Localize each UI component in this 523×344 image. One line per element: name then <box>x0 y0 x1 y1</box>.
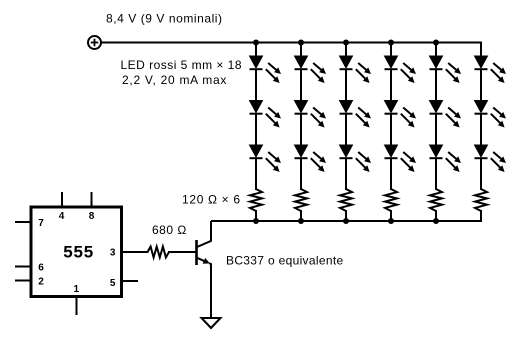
wire column 5 top segment <box>435 43 437 58</box>
node bottom rail junction column 2 <box>298 218 304 224</box>
svg-text:555: 555 <box>63 242 94 261</box>
LED D12 (column 4 row 3) <box>385 145 417 172</box>
wire column 1 LED3 to resistor <box>255 158 257 190</box>
wire column 4 resistor to bottom rail <box>390 210 392 221</box>
transistor Q1 collector diagonal <box>197 241 212 247</box>
svg-text:8: 8 <box>89 211 95 222</box>
LED D15 (column 5 row 3) <box>430 145 462 172</box>
wire column 3 LED3 to resistor <box>345 158 347 190</box>
LED D7 (column 3 row 1) <box>340 56 372 83</box>
node bottom rail junction column 3 <box>343 218 349 224</box>
node top rail junction column 2 <box>298 40 304 46</box>
wire column 1 between LED row 1 and row 2 <box>255 69 257 101</box>
transistor Q1 BC337 base bar <box>195 240 198 265</box>
svg-text:2: 2 <box>38 276 44 287</box>
svg-text:7: 7 <box>38 218 44 229</box>
svg-text:2,2 V, 20 mA max: 2,2 V, 20 mA max <box>122 73 227 87</box>
wire column 3 resistor to bottom rail <box>345 210 347 221</box>
svg-text:4: 4 <box>59 211 65 222</box>
wire top rail from supply to column 6 <box>101 42 482 44</box>
LED D13 (column 5 row 1) <box>430 56 462 83</box>
LED D14 (column 5 row 2) <box>430 101 462 128</box>
wire collector to bottom rail <box>210 221 212 241</box>
node bottom rail junction column 5 <box>433 218 439 224</box>
wire column 1 top segment <box>255 43 257 58</box>
node top rail junction column 1 <box>253 40 259 46</box>
LED D4 (column 2 row 1) <box>295 56 327 83</box>
svg-text:LED rossi 5 mm × 18: LED rossi 5 mm × 18 <box>121 58 243 72</box>
wire column 5 between LED row 2 and row 3 <box>435 114 437 146</box>
wire column 1 resistor to bottom rail <box>255 210 257 221</box>
wire column 4 top segment <box>390 43 392 58</box>
resistor R3 120 ohm <box>340 189 352 211</box>
svg-text:680 Ω: 680 Ω <box>152 223 187 237</box>
wire column 3 between LED row 1 and row 2 <box>345 69 347 101</box>
node bottom rail junction column 1 <box>253 218 259 224</box>
pin 3 wire to base resistor <box>122 251 149 253</box>
node top rail junction column 3 <box>343 40 349 46</box>
LED D8 (column 3 row 2) <box>340 101 372 128</box>
LED D11 (column 4 row 2) <box>385 101 417 128</box>
wire column 3 top segment <box>345 43 347 58</box>
pin 7 wire <box>15 221 31 223</box>
pin 1 wire <box>76 297 78 316</box>
wire column 6 LED3 to resistor <box>480 158 482 190</box>
wire column 6 between LED row 2 and row 3 <box>480 114 482 146</box>
LED D10 (column 4 row 1) <box>385 56 417 83</box>
supply terminal + <box>88 36 101 49</box>
LED D17 (column 6 row 2) <box>475 101 507 128</box>
wire column 1 between LED row 2 and row 3 <box>255 114 257 146</box>
wire column 2 between LED row 2 and row 3 <box>300 114 302 146</box>
resistor R5 120 ohm <box>430 189 442 211</box>
node bottom rail junction column 4 <box>388 218 394 224</box>
wire column 3 between LED row 2 and row 3 <box>345 114 347 146</box>
wire column 2 between LED row 1 and row 2 <box>300 69 302 101</box>
resistor R4 120 ohm <box>385 189 397 211</box>
wire column 5 between LED row 1 and row 2 <box>435 69 437 101</box>
wire column 4 between LED row 1 and row 2 <box>390 69 392 101</box>
wire 680 ohm to base <box>168 251 196 253</box>
svg-text:8,4 V (9 V nominali): 8,4 V (9 V nominali) <box>106 11 223 25</box>
pin 4 wire <box>61 192 63 207</box>
LED D3 (column 1 row 3) <box>250 145 282 172</box>
svg-text:3: 3 <box>110 248 116 259</box>
wire column 6 between LED row 1 and row 2 <box>480 69 482 101</box>
IC U1 555 timer box <box>31 207 122 297</box>
transistor Q1 emitter diagonal with arrow <box>197 258 206 262</box>
pin 6 wire <box>15 266 31 268</box>
ground symbol <box>202 318 221 328</box>
wire column 2 LED3 to resistor <box>300 158 302 190</box>
svg-text:1: 1 <box>74 284 80 295</box>
resistor R7 680 ohm <box>148 247 170 258</box>
node top rail junction column 4 <box>388 40 394 46</box>
wire emitter segment <box>209 263 211 318</box>
svg-text:BC337 o equivalente: BC337 o equivalente <box>226 254 344 268</box>
wire column 5 LED3 to resistor <box>435 158 437 190</box>
pin 5 wire <box>122 280 139 282</box>
pin 8 wire <box>91 192 93 207</box>
LED D5 (column 2 row 2) <box>295 101 327 128</box>
LED D1 (column 1 row 1) <box>250 56 282 83</box>
resistor R2 120 ohm <box>295 189 307 211</box>
LED D2 (column 1 row 2) <box>250 101 282 128</box>
wire column 2 resistor to bottom rail <box>300 210 302 221</box>
LED D9 (column 3 row 3) <box>340 145 372 172</box>
wire column 4 LED3 to resistor <box>390 158 392 190</box>
wire column 4 between LED row 2 and row 3 <box>390 114 392 146</box>
node top rail junction column 5 <box>433 40 439 46</box>
svg-text:6: 6 <box>38 262 44 273</box>
LED D6 (column 2 row 3) <box>295 145 327 172</box>
svg-text:5: 5 <box>110 278 116 289</box>
wire column 5 resistor to bottom rail <box>435 210 437 221</box>
resistor R6 120 ohm <box>475 189 487 211</box>
LED D18 (column 6 row 3) <box>475 145 507 172</box>
svg-text:120 Ω × 6: 120 Ω × 6 <box>182 193 241 207</box>
wire column 6 top segment <box>480 43 482 58</box>
resistor R1 120 ohm <box>250 189 262 211</box>
LED D16 (column 6 row 1) <box>475 56 507 83</box>
wire column 6 resistor to bottom rail <box>480 210 482 221</box>
wire column 2 top segment <box>300 43 302 58</box>
pin 2 wire <box>15 280 31 282</box>
wire bottom rail to collector <box>211 220 482 222</box>
